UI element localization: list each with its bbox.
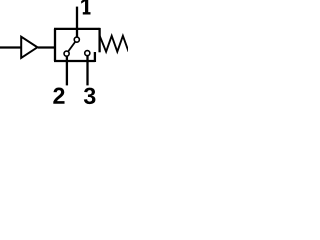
wire: port 1 — [76, 7, 78, 38]
label 2 — [53, 88, 64, 104]
wire: port 3 — [86, 53, 88, 85]
switch blade — [67, 40, 77, 54]
wire: port 2 — [66, 54, 68, 86]
switch box — [54, 29, 100, 62]
contact: port 2 (left) — [64, 51, 69, 56]
wire: triangle to box — [38, 46, 56, 48]
wire: left input — [0, 46, 21, 48]
label 1 — [81, 0, 90, 15]
converter triangle — [21, 37, 37, 58]
contact: port 3 (right) — [85, 51, 90, 56]
spring — [100, 36, 129, 52]
label 3 — [84, 88, 96, 105]
contact: common (top) — [74, 37, 79, 42]
spring post — [98, 28, 100, 52]
